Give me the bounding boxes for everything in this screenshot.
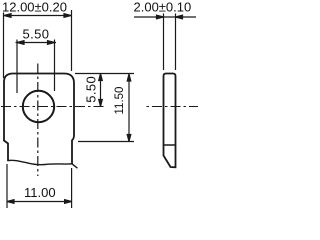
dimension line 11.00 — [7, 200, 72, 204]
dimension line 2.00 — [134, 15, 196, 19]
top edge extension line to right dims — [75, 73, 134, 75]
extension line left of 5.50 top — [16, 40, 18, 94]
dimension line 5.50 top — [16, 41, 57, 45]
vertical centerline — [37, 64, 39, 177]
svg-text:5.50: 5.50 — [84, 76, 99, 103]
side view outline — [164, 74, 176, 168]
side view bend line — [164, 144, 176, 146]
hole circle — [23, 91, 54, 122]
svg-text:12.00±0.20: 12.00±0.20 — [2, 0, 67, 15]
dimension line 5.50 vertical — [99, 74, 103, 107]
horizontal centerline — [1, 106, 105, 108]
svg-text:2.00±0.10: 2.00±0.10 — [134, 0, 192, 15]
extension line left of 12.00 — [3, 13, 5, 79]
dimension line 12.00 — [4, 14, 71, 18]
break line (wavy) — [8, 160, 77, 168]
extension line left of 2.00 — [163, 14, 165, 71]
extension line right of 11.00 — [71, 168, 73, 208]
dimension line 11.50 vertical — [127, 74, 131, 142]
svg-text:5.50: 5.50 — [23, 27, 50, 42]
extension line right of 12.00 — [71, 10, 73, 71]
extension line right of 5.50 top — [54, 40, 56, 92]
svg-text:11.00: 11.00 — [24, 185, 56, 200]
svg-text:11.50: 11.50 — [114, 87, 126, 115]
part outline front view — [4, 74, 77, 168]
extension line left of 11.00 — [6, 164, 8, 208]
extension line bottom of 11.50 — [78, 141, 134, 143]
extension line right of 2.00 — [175, 14, 177, 71]
